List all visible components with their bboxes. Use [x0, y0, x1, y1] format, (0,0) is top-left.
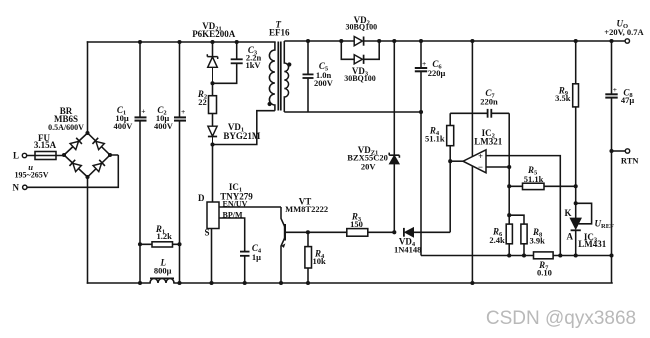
- svg-text:220μ: 220μ: [428, 68, 446, 78]
- svg-text:A: A: [567, 232, 574, 242]
- transformer primary winding: [269, 42, 275, 111]
- capacitor C8 47u: [605, 41, 617, 256]
- svg-text:3.5k: 3.5k: [555, 93, 571, 103]
- shunt regulator IC3 LM431: [570, 218, 581, 255]
- svg-text:150: 150: [350, 219, 363, 229]
- diode VD2 30BQ100: [354, 37, 363, 46]
- svg-text:20V: 20V: [361, 161, 377, 171]
- capacitor C7 220n feedback: [450, 109, 509, 118]
- terminal L: [22, 153, 26, 157]
- diode VD4 1N4148: [404, 228, 450, 237]
- svg-text:2.4k: 2.4k: [489, 235, 505, 245]
- svg-text:22: 22: [198, 97, 207, 107]
- bridge diode lower-right: [93, 160, 105, 172]
- wire primary top rail: [88, 41, 275, 43]
- wire secondary bottom rail: [284, 111, 421, 113]
- capacitor C1 10u 400V: [135, 42, 147, 283]
- node primary polarity dot: [268, 102, 272, 106]
- capacitor C3 2.2n 1kV: [213, 42, 243, 83]
- svg-text:400V: 400V: [114, 121, 134, 131]
- svg-text:N: N: [13, 183, 20, 193]
- svg-text:1μ: 1μ: [252, 252, 261, 262]
- resistor R8 3.9k: [509, 215, 527, 255]
- svg-text:LM321: LM321: [474, 137, 502, 147]
- wire primary bottom (ground) rail: [88, 282, 613, 284]
- diode VD1 BYG21M: [208, 126, 217, 144]
- wire sense line: [421, 255, 612, 257]
- wire op-amp supply from +20V rail down to ground: [471, 41, 473, 283]
- wire S pin to ground rail: [211, 229, 213, 284]
- wire K to REF loop: [576, 203, 592, 224]
- resistor R3 150: [308, 229, 394, 237]
- svg-text:+: +: [181, 107, 185, 116]
- svg-text:0.10: 0.10: [537, 267, 552, 277]
- svg-text:+: +: [141, 107, 145, 116]
- wire op-amp output: [450, 160, 463, 162]
- svg-text:+: +: [478, 151, 483, 161]
- svg-text:+: +: [422, 59, 426, 68]
- transformer secondary winding: [284, 41, 288, 112]
- svg-text:LM431: LM431: [578, 239, 606, 249]
- svg-text:L: L: [13, 151, 19, 161]
- svg-text:195~265V: 195~265V: [15, 171, 49, 180]
- svg-text:K: K: [564, 208, 571, 218]
- transformer T EF16 core: [278, 42, 281, 111]
- fuse FU 3.15A: [27, 152, 64, 160]
- transistor VT MM8T2222: [281, 207, 308, 283]
- svg-text:3.15A: 3.15A: [34, 140, 57, 150]
- svg-text:S: S: [204, 228, 209, 238]
- terminal N: [23, 185, 27, 189]
- wire ground rail right bend up to sense node: [611, 256, 613, 284]
- wire bridge bottom down to ground rail: [87, 177, 89, 283]
- svg-text:30BQ100: 30BQ100: [346, 23, 378, 32]
- wire bridge top to rail: [87, 42, 89, 133]
- svg-text:MM8T2222: MM8T2222: [285, 204, 328, 214]
- svg-text:+: +: [613, 85, 617, 94]
- capacitor C6 220u: [415, 41, 427, 256]
- bridge diode lower-left: [69, 160, 81, 172]
- svg-text:1.2k: 1.2k: [157, 231, 173, 241]
- terminal RTN: [612, 150, 626, 152]
- node secondary polarity dot: [287, 62, 291, 66]
- IC1 TNY279 box: [207, 202, 219, 229]
- svg-text:RTN: RTN: [621, 156, 640, 166]
- wire secondary top rail: [284, 40, 625, 42]
- svg-text:1N4148: 1N4148: [394, 245, 421, 255]
- capacitor C2 10u 400V: [174, 42, 186, 283]
- pin BP/M wire: [219, 218, 245, 251]
- svg-text:−: −: [478, 162, 483, 172]
- svg-text:220n: 220n: [480, 97, 498, 107]
- pin EN/UV wire to VT collector: [219, 206, 281, 208]
- svg-text:CSDN @qyx3868: CSDN @qyx3868: [486, 308, 636, 329]
- svg-text:1kV: 1kV: [245, 60, 261, 70]
- svg-text:D: D: [198, 193, 205, 203]
- svg-text:3.9k: 3.9k: [530, 235, 546, 245]
- svg-text:30BQ100: 30BQ100: [344, 74, 376, 83]
- resistor R6 2.4k: [506, 215, 512, 255]
- svg-text:P6KE200A: P6KE200A: [192, 29, 236, 39]
- capacitor C4 1u: [240, 252, 250, 283]
- svg-text:EF16: EF16: [269, 28, 290, 38]
- op-amp U1 IC2 LM321: [463, 150, 486, 173]
- resistor R1 1.2k (parallel with L): [140, 242, 180, 247]
- wire op-amp - input: [486, 166, 509, 168]
- svg-text:BYG21M: BYG21M: [223, 131, 261, 141]
- svg-text:0.5A/600V: 0.5A/600V: [48, 123, 84, 132]
- terminal U_O +20V 0.7A: [625, 39, 629, 43]
- node junction dots: [138, 39, 614, 285]
- wire D node down to IC1 drain pin: [212, 145, 214, 203]
- svg-text:+20V, 0.7A: +20V, 0.7A: [604, 27, 644, 37]
- node bridge vertex dots: [62, 131, 112, 179]
- svg-text:51.1k: 51.1k: [425, 133, 445, 143]
- resistor R4 10k: [305, 232, 312, 283]
- svg-text:10k: 10k: [313, 256, 327, 266]
- resistor R7 0.10: [534, 252, 554, 259]
- svg-text:BP/M: BP/M: [223, 210, 243, 219]
- diode VD3 30BQ100 parallel branch: [341, 41, 379, 64]
- resistor R2 22: [209, 83, 217, 126]
- svg-text:800μ: 800μ: [154, 265, 172, 275]
- capacitor C5 1.0n 200V: [303, 41, 314, 112]
- inductor L 800u in ground rail: [150, 278, 174, 283]
- node R1 junction dots: [138, 242, 182, 246]
- svg-text:51.1k: 51.1k: [524, 174, 544, 184]
- wire op-amp + input to current sense: [486, 156, 560, 256]
- bridge rectifier BR MB6S diamond: [64, 133, 110, 177]
- resistor R5 51.1k: [509, 183, 576, 189]
- bridge diode upper-left: [70, 138, 82, 150]
- svg-text:200V: 200V: [314, 78, 334, 88]
- zener VDZ1 BZX55C20 line from +20V rail: [393, 41, 395, 155]
- svg-text:47μ: 47μ: [621, 95, 635, 105]
- svg-text:EN/UV: EN/UV: [223, 199, 248, 208]
- resistor R4 51.1k: [447, 113, 454, 232]
- bridge diode upper-right: [92, 138, 104, 150]
- wire N line to bridge right vertex: [27, 155, 118, 187]
- TVS diode VD21 P6KE200A: [207, 42, 217, 83]
- resistor R9 3.5k: [573, 41, 579, 218]
- wire D node to transformer primary bottom: [213, 111, 275, 145]
- wire feedback node vertical: [508, 113, 510, 215]
- zener VDZ1 BZX55C20 symbol: [389, 153, 399, 233]
- svg-text:400V: 400V: [154, 121, 174, 131]
